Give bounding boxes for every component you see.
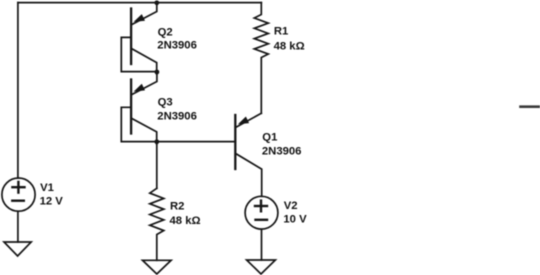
Q3 emitter lead: [132, 72, 157, 95]
node Q2 collector dot: [155, 70, 160, 75]
voltage source V1 circle: [2, 178, 35, 211]
node top junction dot: [154, 0, 159, 5]
resistor R2 48k zigzag: [150, 188, 164, 260]
node Q3 collector dot: [154, 139, 159, 144]
svg-text:48 kΩ: 48 kΩ: [170, 215, 201, 227]
svg-text:2N3906: 2N3906: [157, 111, 197, 123]
Q2 collector lead: [132, 49, 157, 74]
svg-text:V1: V1: [40, 182, 54, 194]
wire node to Q1 base: [157, 141, 236, 143]
ground below V1: [4, 242, 31, 256]
transistor Q2 (PNP 2N3906, diode-connected): [121, 3, 157, 74]
Q3 collector lead: [132, 119, 157, 145]
svg-text:48 kΩ: 48 kΩ: [274, 40, 305, 52]
Q2 base-to-collector wrap wire: [121, 37, 157, 71]
svg-text:2N3906: 2N3906: [157, 40, 197, 52]
svg-text:V2: V2: [284, 200, 298, 212]
svg-text:Q3: Q3: [158, 97, 173, 109]
stray dash at right edge: [521, 105, 540, 108]
wire V1 to ground: [17, 211, 19, 242]
wire left vertical from rail to V1: [17, 3, 19, 178]
svg-text:10 V: 10 V: [283, 213, 307, 225]
Q2 emitter lead: [132, 3, 157, 25]
V1 plus sign: [12, 182, 24, 193]
V1 minus sign: [12, 199, 23, 201]
Q1 emitter arrowhead: [238, 117, 249, 125]
Q2 emitter arrowhead: [134, 14, 145, 22]
Q1 base bar: [234, 115, 236, 169]
ground below V2: [247, 260, 276, 274]
Q3 base bar: [130, 80, 132, 134]
svg-text:R2: R2: [170, 201, 184, 213]
svg-text:Q2: Q2: [158, 26, 173, 38]
transistor Q3 (PNP 2N3906, diode-connected): [121, 72, 157, 144]
wire V2 to ground: [261, 229, 263, 260]
V2 plus sign: [255, 201, 267, 212]
Q3 emitter arrowhead: [134, 84, 145, 92]
ground below R2: [143, 260, 172, 274]
Q1 emitter lead: [236, 113, 261, 127]
wire node to R2: [156, 142, 158, 189]
resistor R1 48k zigzag: [254, 3, 268, 114]
svg-text:2N3906: 2N3906: [262, 146, 302, 158]
V2 minus sign: [256, 219, 268, 221]
svg-text:12 V: 12 V: [40, 196, 64, 208]
svg-text:Q1: Q1: [262, 132, 277, 144]
Q3 base-to-collector wrap wire: [121, 107, 157, 141]
wire top rail: [18, 2, 261, 4]
Q1 collector lead: [236, 154, 261, 196]
Q2 base bar: [130, 9, 132, 65]
voltage source V2 circle: [245, 196, 278, 229]
svg-text:R1: R1: [274, 26, 288, 38]
transistor Q1 (PNP 2N3906): [235, 113, 261, 196]
